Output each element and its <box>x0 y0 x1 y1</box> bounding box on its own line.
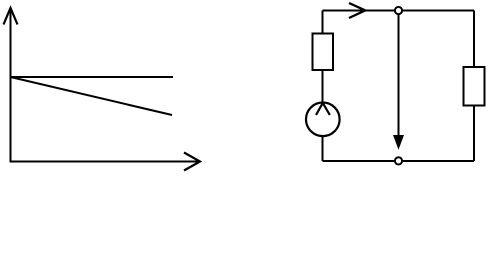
characteristic line (horizontal) <box>11 76 174 78</box>
voltage arrow shaft (middle branch) <box>398 15 400 137</box>
wire (top rail) <box>323 10 475 12</box>
wire (left rail, corner to resistor) <box>322 11 324 34</box>
x-axis <box>10 161 199 163</box>
wire (bottom rail) <box>323 160 475 162</box>
x-axis arrowhead <box>184 153 200 171</box>
wire (source to bottom corner) <box>322 136 324 161</box>
wire (right rail, top) <box>473 11 475 68</box>
resistor R1 (left branch) <box>313 34 334 71</box>
current source arrow <box>316 103 330 115</box>
voltage arrowhead (filled, pointing down) <box>393 135 404 150</box>
y-axis arrowhead <box>4 8 18 25</box>
characteristic line (falling) <box>11 77 173 115</box>
y-axis <box>10 9 12 163</box>
resistor R2 (right branch) <box>464 67 485 106</box>
node terminal (bottom, open circle) <box>395 157 402 164</box>
current arrow on top wire <box>349 3 365 18</box>
node terminal (top, open circle) <box>395 7 402 14</box>
wire (right rail, bottom) <box>473 106 475 162</box>
wire (resistor to source) <box>322 70 324 103</box>
current source Q (circle) <box>306 103 340 137</box>
